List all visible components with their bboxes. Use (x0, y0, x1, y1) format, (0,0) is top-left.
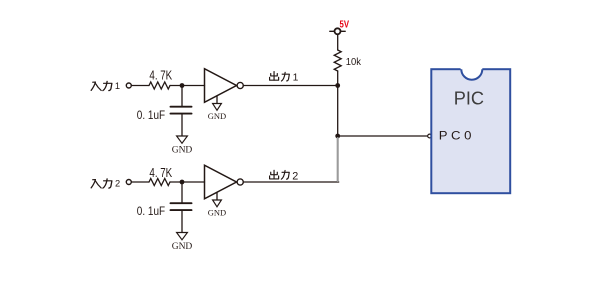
svg-text:2: 2 (292, 170, 298, 182)
svg-text:2: 2 (115, 179, 120, 189)
svg-text:10k: 10k (346, 57, 362, 68)
svg-text:5V: 5V (340, 19, 350, 31)
svg-text:GND: GND (172, 242, 193, 252)
svg-text:4. 7K: 4. 7K (149, 165, 172, 180)
svg-text:PIC: PIC (454, 88, 484, 108)
svg-text:GND: GND (208, 111, 226, 121)
svg-text:1: 1 (115, 81, 120, 91)
svg-text:P C 0: P C 0 (439, 128, 472, 142)
svg-text:GND: GND (208, 208, 226, 218)
svg-text:0. 1uF: 0. 1uF (137, 108, 166, 122)
svg-text:4. 7K: 4. 7K (149, 67, 172, 82)
svg-text:GND: GND (172, 145, 193, 155)
svg-text:1: 1 (293, 73, 299, 84)
svg-text:0. 1uF: 0. 1uF (137, 204, 166, 218)
